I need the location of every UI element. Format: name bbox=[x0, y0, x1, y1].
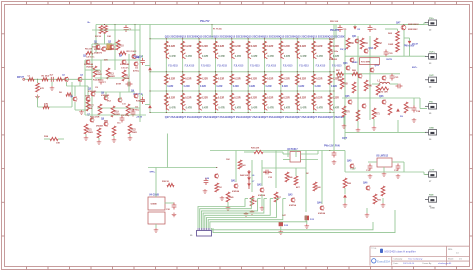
svg-text:0.22R: 0.22R bbox=[218, 46, 224, 48]
svg-text:4700u: 4700u bbox=[133, 108, 140, 111]
svg-text:R23 220R: R23 220R bbox=[90, 117, 100, 119]
svg-text:0.47R: 0.47R bbox=[300, 55, 307, 58]
svg-text:Q15 2SC5200: Q15 2SC5200 bbox=[214, 34, 231, 38]
svg-text:Q47: Q47 bbox=[396, 22, 401, 25]
svg-text:Q46: Q46 bbox=[363, 182, 368, 185]
svg-text:R39 22K: R39 22K bbox=[251, 148, 260, 150]
svg-text:Q32: Q32 bbox=[369, 48, 374, 50]
svg-text:FAN: FAN bbox=[429, 194, 434, 197]
svg-text:0.22R: 0.22R bbox=[300, 46, 306, 48]
svg-text:2N5551: 2N5551 bbox=[94, 49, 102, 51]
svg-text:BST+: BST+ bbox=[412, 67, 418, 69]
svg-text:R20: R20 bbox=[130, 110, 135, 112]
svg-text:0.47R: 0.47R bbox=[317, 55, 324, 58]
svg-text:MJX2400 class H amplifier: MJX2400 class H amplifier bbox=[385, 250, 416, 254]
svg-text:100R: 100R bbox=[110, 76, 116, 78]
svg-text:2SC2240: 2SC2240 bbox=[84, 63, 94, 66]
svg-text:0.47R: 0.47R bbox=[218, 55, 225, 58]
svg-text:Q27 2SA1943: Q27 2SA1943 bbox=[312, 115, 329, 119]
svg-text:Q15 2SC5200: Q15 2SC5200 bbox=[230, 34, 247, 38]
svg-text:KSA992: KSA992 bbox=[101, 94, 110, 97]
svg-text:KSA992: KSA992 bbox=[329, 58, 338, 61]
svg-text:0.22R: 0.22R bbox=[283, 79, 289, 81]
svg-text:1K: 1K bbox=[90, 108, 93, 110]
svg-text:OUTB: OUTB bbox=[386, 59, 392, 61]
svg-text:0.47R: 0.47R bbox=[268, 55, 275, 58]
svg-text:0.22R: 0.22R bbox=[218, 97, 224, 99]
svg-text:0.22R: 0.22R bbox=[282, 86, 288, 88]
svg-text:10K: 10K bbox=[329, 42, 333, 44]
svg-text:0.47R: 0.47R bbox=[186, 107, 193, 110]
svg-text:Q31: Q31 bbox=[352, 36, 357, 38]
svg-text:R62: R62 bbox=[378, 43, 383, 45]
svg-text:R38 1K: R38 1K bbox=[162, 181, 170, 183]
svg-text:0.47R: 0.47R bbox=[333, 107, 340, 110]
svg-text:PW_B: PW_B bbox=[340, 49, 347, 51]
svg-text:2SA970: 2SA970 bbox=[94, 52, 103, 55]
svg-text:0.22R: 0.22R bbox=[266, 86, 272, 88]
svg-text:Date:: Date: bbox=[394, 262, 399, 265]
svg-text:C18 100n: C18 100n bbox=[329, 51, 339, 53]
svg-text:Q15 2SC5200: Q15 2SC5200 bbox=[181, 34, 198, 38]
svg-text:Q45: Q45 bbox=[347, 160, 352, 163]
svg-text:47K: 47K bbox=[40, 87, 44, 90]
svg-text:0.22R: 0.22R bbox=[331, 86, 337, 88]
svg-text:R44 10K: R44 10K bbox=[240, 174, 249, 177]
svg-text:R21: R21 bbox=[88, 130, 93, 132]
svg-text:KSA1220: KSA1220 bbox=[136, 100, 146, 103]
svg-text:470R: 470R bbox=[116, 83, 121, 86]
svg-text:0.22R: 0.22R bbox=[316, 97, 322, 99]
svg-text:Q15 2SC5200: Q15 2SC5200 bbox=[263, 34, 280, 38]
svg-text:0.22R: 0.22R bbox=[316, 79, 322, 81]
svg-text:0.22R: 0.22R bbox=[234, 46, 240, 48]
svg-text:2SC2240: 2SC2240 bbox=[120, 63, 130, 66]
svg-text:GND: GND bbox=[430, 208, 435, 210]
svg-text:Q33: Q33 bbox=[343, 63, 348, 65]
svg-text:R71: R71 bbox=[376, 114, 381, 116]
svg-text:0.22R: 0.22R bbox=[316, 46, 322, 48]
svg-text:R75 10R: R75 10R bbox=[379, 92, 388, 94]
svg-text:Drawn By:: Drawn By: bbox=[423, 263, 433, 265]
svg-text:0.47R: 0.47R bbox=[169, 55, 176, 58]
svg-text:PW+65V: PW+65V bbox=[330, 30, 340, 32]
svg-text:R60: R60 bbox=[350, 43, 355, 45]
svg-text:0.22R: 0.22R bbox=[267, 46, 273, 48]
svg-text:10K: 10K bbox=[226, 159, 230, 161]
svg-text:OUT: OUT bbox=[342, 137, 348, 140]
svg-text:0.22R: 0.22R bbox=[315, 86, 321, 88]
svg-text:F1 T6.3A: F1 T6.3A bbox=[213, 28, 222, 31]
svg-text:Q27 2SA1943: Q27 2SA1943 bbox=[296, 115, 313, 119]
svg-text:0.22R: 0.22R bbox=[234, 97, 240, 99]
svg-text:FJL4315: FJL4315 bbox=[250, 64, 260, 67]
svg-text:100R: 100R bbox=[388, 44, 394, 46]
svg-text:R15: R15 bbox=[126, 76, 131, 78]
svg-text:PW+100V: PW+100V bbox=[404, 46, 415, 48]
svg-text:Q27 2SA1943: Q27 2SA1943 bbox=[230, 115, 247, 119]
svg-text:0.47R: 0.47R bbox=[169, 107, 176, 110]
svg-text:Q42: Q42 bbox=[257, 184, 262, 187]
svg-text:U3 LM7812: U3 LM7812 bbox=[376, 156, 389, 158]
svg-text:0.47R: 0.47R bbox=[202, 55, 209, 58]
svg-text:+12V: +12V bbox=[429, 170, 435, 172]
svg-text:10K: 10K bbox=[56, 143, 60, 145]
svg-text:MJE350C: MJE350C bbox=[408, 29, 418, 31]
svg-text:0.22R: 0.22R bbox=[249, 86, 255, 88]
svg-text:0.22R: 0.22R bbox=[184, 86, 190, 88]
svg-text:Q15 2SC5200: Q15 2SC5200 bbox=[279, 34, 296, 38]
svg-text:0.22R: 0.22R bbox=[251, 97, 257, 99]
svg-text:Q27 2SA1943: Q27 2SA1943 bbox=[198, 115, 215, 119]
svg-text:0.47R: 0.47R bbox=[251, 107, 258, 110]
svg-text:R17: R17 bbox=[90, 106, 95, 108]
svg-text:0.22R: 0.22R bbox=[283, 46, 289, 48]
svg-text:KSP44: KSP44 bbox=[318, 212, 326, 215]
svg-text:REV:: REV: bbox=[448, 249, 453, 251]
svg-text:0.47R: 0.47R bbox=[235, 107, 242, 110]
svg-text:1N4148: 1N4148 bbox=[86, 66, 94, 69]
svg-text:aleoberyan85: aleoberyan85 bbox=[438, 262, 452, 265]
svg-text:Sheet:: Sheet: bbox=[448, 257, 454, 260]
svg-text:R55 10K: R55 10K bbox=[330, 21, 339, 23]
svg-text:Q4b: Q4b bbox=[135, 56, 140, 59]
svg-text:0.47R: 0.47R bbox=[235, 55, 242, 58]
svg-text:Q15 2SC5200: Q15 2SC5200 bbox=[247, 34, 264, 38]
svg-text:PW+12V_FAN: PW+12V_FAN bbox=[324, 145, 340, 148]
svg-text:KSP94: KSP94 bbox=[289, 204, 297, 207]
svg-text:Q15 2SC5200: Q15 2SC5200 bbox=[312, 34, 329, 38]
svg-text:0.22R: 0.22R bbox=[167, 86, 173, 88]
svg-text:0.22R: 0.22R bbox=[185, 97, 191, 99]
svg-text:0.22R: 0.22R bbox=[185, 79, 191, 81]
svg-text:R13: R13 bbox=[110, 74, 115, 76]
svg-text:R10: R10 bbox=[120, 46, 125, 48]
svg-text:0.22R: 0.22R bbox=[251, 79, 257, 81]
svg-text:0.22R: 0.22R bbox=[216, 86, 222, 88]
svg-text:OUT-: OUT- bbox=[429, 75, 434, 77]
svg-text:10K: 10K bbox=[107, 36, 111, 38]
svg-text:0.47R: 0.47R bbox=[284, 107, 291, 110]
svg-text:100R: 100R bbox=[88, 132, 94, 134]
svg-text:EasyEDA: EasyEDA bbox=[377, 259, 391, 263]
svg-text:Q15 2SC5200: Q15 2SC5200 bbox=[165, 34, 182, 38]
svg-text:KSP44: KSP44 bbox=[232, 190, 240, 193]
svg-text:0.47R: 0.47R bbox=[218, 107, 225, 110]
svg-text:Q36: Q36 bbox=[379, 96, 384, 98]
svg-text:FJL4315: FJL4315 bbox=[185, 64, 195, 67]
svg-text:R65: R65 bbox=[344, 84, 349, 86]
svg-text:68R: 68R bbox=[104, 121, 108, 123]
svg-text:+IN_B: +IN_B bbox=[136, 117, 142, 119]
svg-text:VBE2: VBE2 bbox=[352, 62, 358, 64]
svg-text:Q44: Q44 bbox=[317, 202, 322, 205]
svg-text:MJE15032: MJE15032 bbox=[408, 24, 419, 26]
svg-text:Q43: Q43 bbox=[288, 194, 293, 197]
svg-text:FJL4315: FJL4315 bbox=[201, 64, 211, 67]
svg-text:FJL4315: FJL4315 bbox=[299, 64, 309, 67]
svg-text:0.22R: 0.22R bbox=[333, 97, 339, 99]
svg-text:1K: 1K bbox=[219, 187, 222, 189]
svg-text:22K: 22K bbox=[44, 103, 48, 105]
svg-text:0.22R: 0.22R bbox=[169, 46, 175, 48]
svg-text:C10 47u: C10 47u bbox=[121, 67, 130, 70]
svg-text:R58: R58 bbox=[338, 77, 343, 79]
svg-text:C34 100n: C34 100n bbox=[263, 171, 273, 174]
svg-text:100R: 100R bbox=[132, 132, 138, 134]
svg-text:0.22R: 0.22R bbox=[233, 86, 239, 88]
svg-text:0.22R: 0.22R bbox=[283, 97, 289, 99]
svg-text:FJL4315: FJL4315 bbox=[168, 64, 178, 67]
svg-text:R22: R22 bbox=[132, 130, 137, 132]
svg-text:0.47R: 0.47R bbox=[317, 107, 324, 110]
svg-text:KSA992: KSA992 bbox=[88, 90, 97, 93]
svg-text:TITLE:: TITLE: bbox=[371, 248, 377, 250]
svg-text:G5NB: G5NB bbox=[151, 204, 157, 206]
svg-text:0.47R: 0.47R bbox=[284, 55, 291, 58]
svg-text:2021-09-14: 2021-09-14 bbox=[403, 263, 415, 265]
svg-text:0.22R: 0.22R bbox=[234, 79, 240, 81]
svg-text:Q27 2SA1943: Q27 2SA1943 bbox=[279, 115, 296, 119]
svg-text:0.47R: 0.47R bbox=[202, 107, 209, 110]
svg-text:0.22R: 0.22R bbox=[298, 86, 304, 88]
svg-text:0.22R: 0.22R bbox=[169, 97, 175, 99]
svg-text:R71 NFB: R71 NFB bbox=[361, 61, 371, 63]
svg-text:R2 1K: R2 1K bbox=[95, 36, 102, 38]
svg-text:FJL4315: FJL4315 bbox=[217, 64, 227, 67]
svg-text:0.22R: 0.22R bbox=[300, 79, 306, 81]
svg-text:SPK+: SPK+ bbox=[150, 172, 156, 174]
svg-text:Q41: Q41 bbox=[231, 180, 236, 183]
svg-text:0.22R: 0.22R bbox=[300, 97, 306, 99]
svg-text:Your Company: Your Company bbox=[408, 257, 423, 260]
svg-text:0.22R: 0.22R bbox=[202, 79, 208, 81]
svg-text:0.22R: 0.22R bbox=[185, 46, 191, 48]
svg-text:FJL4315: FJL4315 bbox=[283, 64, 293, 67]
svg-text:0.47R: 0.47R bbox=[268, 107, 275, 110]
svg-text:FJL4315: FJL4315 bbox=[316, 64, 326, 67]
svg-text:FJL4315: FJL4315 bbox=[234, 64, 244, 67]
svg-text:4700u: 4700u bbox=[133, 69, 140, 72]
svg-text:PW+: PW+ bbox=[429, 18, 435, 20]
svg-text:R1 2K2: R1 2K2 bbox=[42, 75, 50, 77]
svg-text:U2 PC817: U2 PC817 bbox=[287, 149, 298, 151]
svg-text:22K: 22K bbox=[104, 60, 108, 62]
svg-text:0.22R: 0.22R bbox=[202, 97, 208, 99]
svg-text:Q15 2SC5200: Q15 2SC5200 bbox=[329, 34, 346, 38]
svg-text:0.22R: 0.22R bbox=[202, 46, 208, 48]
svg-text:U4 G5NB: U4 G5NB bbox=[149, 194, 159, 197]
svg-text:56K: 56K bbox=[126, 78, 130, 80]
svg-text:2N5551: 2N5551 bbox=[108, 49, 116, 51]
svg-text:PW-: PW- bbox=[429, 101, 433, 103]
svg-text:220R: 220R bbox=[97, 74, 103, 76]
svg-text:10K: 10K bbox=[253, 201, 257, 203]
svg-text:0.22R: 0.22R bbox=[251, 46, 257, 48]
svg-text:0.22R: 0.22R bbox=[333, 46, 339, 48]
svg-text:R66: R66 bbox=[368, 86, 373, 88]
svg-text:C4 100n: C4 100n bbox=[86, 56, 95, 59]
svg-text:Q27 2SA1943: Q27 2SA1943 bbox=[214, 115, 231, 119]
svg-text:PW+75V: PW+75V bbox=[200, 20, 210, 23]
svg-text:Q35: Q35 bbox=[345, 96, 350, 98]
svg-text:Q15 2SC5200: Q15 2SC5200 bbox=[296, 34, 313, 38]
svg-text:0.47R: 0.47R bbox=[300, 107, 307, 110]
svg-text:0.47R: 0.47R bbox=[333, 55, 340, 58]
svg-text:Q27 2SA1943: Q27 2SA1943 bbox=[165, 115, 182, 119]
svg-text:R19: R19 bbox=[115, 112, 120, 114]
svg-text:0.22R: 0.22R bbox=[169, 79, 175, 81]
svg-text:OUT+: OUT+ bbox=[429, 52, 436, 54]
svg-text:FJL4315: FJL4315 bbox=[267, 64, 277, 67]
svg-text:0.47R: 0.47R bbox=[251, 55, 258, 58]
svg-text:330R: 330R bbox=[115, 114, 121, 116]
svg-text:150R: 150R bbox=[85, 96, 90, 98]
svg-text:Company:: Company: bbox=[394, 258, 404, 260]
svg-text:R61: R61 bbox=[364, 43, 369, 45]
svg-text:Q27 2SA1943: Q27 2SA1943 bbox=[247, 115, 264, 119]
svg-text:2N5401: 2N5401 bbox=[96, 125, 104, 128]
svg-text:0.22R: 0.22R bbox=[200, 86, 206, 88]
svg-text:0.47R: 0.47R bbox=[186, 55, 193, 58]
svg-text:FJL4315: FJL4315 bbox=[332, 64, 342, 67]
svg-text:Q27 2SA1943: Q27 2SA1943 bbox=[181, 115, 198, 119]
svg-text:0.22R: 0.22R bbox=[218, 79, 224, 81]
svg-text:GND: GND bbox=[429, 127, 434, 129]
svg-text:R70: R70 bbox=[346, 112, 351, 114]
svg-text:0.22R: 0.22R bbox=[267, 97, 273, 99]
svg-text:Q27 2SA1943: Q27 2SA1943 bbox=[263, 115, 280, 119]
svg-text:0.22R: 0.22R bbox=[267, 79, 273, 81]
svg-text:C9 100p: C9 100p bbox=[121, 115, 130, 117]
